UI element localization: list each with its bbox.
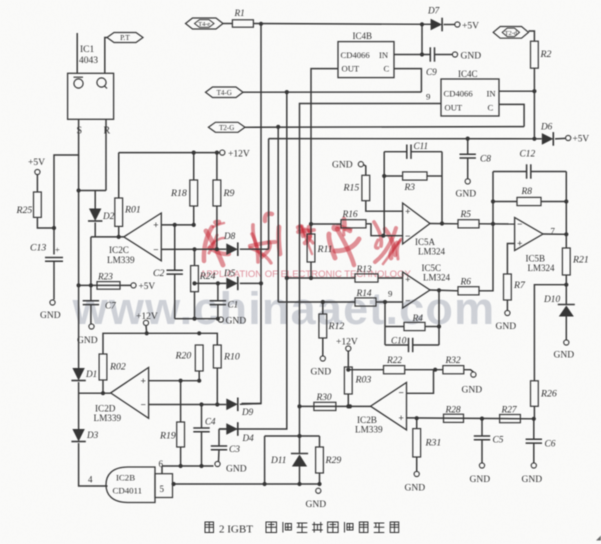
wire minus input up to R22 node xyxy=(407,370,434,394)
junction C8 top xyxy=(466,137,470,141)
resistor R26 xyxy=(531,381,539,407)
wire R14 to IC5C minus input xyxy=(376,301,403,303)
gnd terminal bottom middle xyxy=(316,488,321,493)
resistor R2 xyxy=(531,41,539,68)
junction R9 top xyxy=(215,151,219,155)
capacitor C2 xyxy=(174,225,176,270)
bus x261 from R1 down to D9 xyxy=(242,24,262,404)
wire node left to R26 xyxy=(534,285,566,381)
resistor R25 xyxy=(34,192,42,217)
diode D10 xyxy=(558,304,575,306)
wire C7 to GND xyxy=(90,305,92,324)
ground terminal below C13 xyxy=(50,300,55,305)
wire S-line continues down to D2 row xyxy=(78,155,80,191)
op-amp IC5A LM324 xyxy=(403,203,430,244)
wire C6 to GND xyxy=(533,443,535,463)
resistor R10 xyxy=(213,345,221,368)
resistor R23 xyxy=(97,282,120,290)
gnd row above gate xyxy=(162,465,214,467)
capacitor C1 xyxy=(216,281,220,285)
wire T4-G line xyxy=(243,91,421,93)
resistor R9 xyxy=(216,153,218,180)
wire C4 to gnd row xyxy=(201,432,203,466)
capacitor C6 xyxy=(533,419,535,440)
IC4B CD4066 analog switch box xyxy=(338,42,394,78)
wire C13 to GND xyxy=(53,261,55,299)
wire R01 bottom to output row xyxy=(118,226,120,237)
wire R13 to IC5C plus input xyxy=(378,277,403,279)
wire R5 to IC5B minus input xyxy=(479,223,515,225)
resistor R24 xyxy=(194,249,196,265)
wire link down to gate row xyxy=(264,436,266,484)
resistor R18 xyxy=(193,153,195,180)
power +12V terminal xyxy=(220,150,225,155)
wire R20 to plus row xyxy=(198,371,200,381)
junction above C9 xyxy=(420,22,424,26)
wire D2 top row xyxy=(79,190,106,192)
zener diode D11 xyxy=(291,453,308,455)
wire T2-G line xyxy=(245,126,524,129)
capacitor C9 xyxy=(429,47,431,61)
junction R25/C13 line xyxy=(52,226,56,230)
wire R22 to R32 xyxy=(405,369,443,371)
junction R18 top xyxy=(192,151,196,155)
watermark: red calligraphy characters xyxy=(204,222,229,265)
bus wire down to D8 xyxy=(268,139,270,250)
junction on S line at D2 row xyxy=(77,188,81,192)
resistor R8 feedback row xyxy=(493,201,517,203)
op-amp IC2D LM339 pointing left xyxy=(111,368,149,419)
wire R10 down to minus row xyxy=(216,368,218,405)
wire D5 to bus x261 xyxy=(240,282,261,284)
IC2D minus row xyxy=(149,404,227,406)
gate output row to D11 area xyxy=(173,483,320,485)
diode D2 on vertical xyxy=(94,191,96,209)
resistor R22 xyxy=(384,366,405,374)
node tag T4-e xyxy=(186,18,224,29)
IC2B output row xyxy=(300,405,371,407)
wire +5V to R25 xyxy=(36,175,38,192)
junction R1 line x261 xyxy=(259,22,263,26)
wire output bus down to D11 node xyxy=(299,406,301,453)
wire IC4C C pin loop to T2-G line xyxy=(499,104,524,126)
wire R11 down to R13 row xyxy=(310,262,312,278)
wire R6 to summing node vertical x493 xyxy=(479,172,493,291)
wire R25 to C13 line xyxy=(37,217,54,228)
wire D9 to bus x261 xyxy=(240,403,261,406)
wire IC4C OUT to bus x297 down to IC2B output row xyxy=(300,104,442,407)
wire R9 bottom to minus row xyxy=(216,206,218,249)
diode D9 xyxy=(226,399,238,411)
gate output box pin5 xyxy=(155,474,173,498)
junction R2 bottom on +5V rail xyxy=(532,137,536,141)
wire IC5B output to x566 xyxy=(543,233,566,235)
S-line long vertical with D1 D3 xyxy=(78,191,80,369)
wire R pin down to D2 row xyxy=(105,119,107,190)
resistor R01 xyxy=(115,198,123,226)
wire R16 row from bus xyxy=(311,223,341,225)
wire R18 bottom to plus row xyxy=(193,206,195,225)
junction C2 top xyxy=(173,223,177,227)
capacitor C4 xyxy=(201,405,203,429)
R13 row wire xyxy=(287,277,355,279)
wire IC4B IN to C9 xyxy=(394,54,430,56)
wire R31 to GND xyxy=(416,457,418,472)
resistor R4 feedback row xyxy=(385,326,404,328)
capacitor C12 feedback row top xyxy=(493,171,527,173)
resistor R21 xyxy=(562,248,570,275)
wire IC4B OUT to left bus x311 xyxy=(311,69,338,224)
capacitor C8 from +5V rail xyxy=(467,139,469,155)
resistor R28 xyxy=(444,414,464,422)
resistor R20 xyxy=(195,345,203,371)
gnd row under C2 xyxy=(175,318,218,320)
bus wire T4-G down to D4 xyxy=(219,92,287,429)
wire junction down to IC4B IN line xyxy=(421,24,423,54)
diode D4 row xyxy=(219,428,226,430)
op-amp IC2B LM339 pointing left xyxy=(371,383,407,430)
node tag T2-G xyxy=(208,122,245,132)
capacitor C5 xyxy=(481,419,483,436)
R22 row wire xyxy=(348,369,383,371)
op-amp IC5C LM324 xyxy=(403,272,430,308)
resistor R29 xyxy=(319,436,321,447)
wire +12V to R03 xyxy=(347,351,349,367)
junction on IN line xyxy=(420,52,424,56)
wire IC5B plus input to R7 xyxy=(507,244,514,275)
junction R24 top xyxy=(192,247,196,251)
resistor R1 xyxy=(232,20,253,27)
junction feedback on R14 row xyxy=(383,300,387,304)
IC2D output row xyxy=(79,392,111,394)
wire D11 to bottom row xyxy=(299,467,301,485)
wire D10 to GND xyxy=(565,317,567,341)
wire R32 to GND terminal xyxy=(464,370,474,372)
wire D8 to bus xyxy=(240,248,269,250)
junction T2-G bus xyxy=(276,125,280,129)
resistor R11 below R16 node xyxy=(310,224,312,234)
wire R02 to output row xyxy=(102,380,104,393)
wire tag to R1 xyxy=(223,23,232,25)
wire R15 to IC5A plus input xyxy=(366,201,403,212)
resistor R7 xyxy=(504,274,512,300)
wire IC4C IN to R2 line xyxy=(499,90,534,92)
diode D3 xyxy=(72,429,84,442)
resistor R13 xyxy=(355,274,378,282)
feedback right vertical x566 xyxy=(565,172,567,249)
wire output node down to +5V row xyxy=(90,237,92,286)
IC5C feedback right vertical xyxy=(438,290,440,345)
resistor R16 xyxy=(341,220,366,228)
+5V row with R23 xyxy=(79,284,131,286)
wire S pin down and left to C13 branch xyxy=(54,119,79,254)
wire R2 down to +5V rail xyxy=(533,68,535,139)
wire tag hook to R2 xyxy=(529,31,535,41)
capacitor C10 feedback row xyxy=(385,344,409,346)
IC4C CD4066 analog switch box xyxy=(441,79,499,116)
diode D8 xyxy=(226,243,238,255)
wire +5V D6 rail xyxy=(269,138,542,140)
op-amp IC2C LM339 pointing left xyxy=(124,213,162,261)
wire R16 to IC5A minus input with jog xyxy=(366,224,403,236)
gnd terminal of C2 row xyxy=(218,317,223,322)
+5V terminal of R23 xyxy=(131,283,136,288)
wire IC4B C pin to T4-G line xyxy=(394,69,421,92)
feedback right vertical xyxy=(441,152,443,224)
IC2D plus row xyxy=(149,380,200,382)
resistor R6 xyxy=(458,287,479,295)
resistor R12 from R14 row xyxy=(321,300,325,304)
resistor R31 xyxy=(416,418,418,428)
junction output bus xyxy=(297,404,301,408)
NAND gate IC2B CD4011 xyxy=(106,467,155,503)
wire IC2C output row xyxy=(91,236,124,238)
wire IC1 right pin to tag xyxy=(105,38,107,74)
diode D4 xyxy=(226,423,238,435)
link row to gate output xyxy=(265,435,320,437)
resistor R32 xyxy=(443,366,464,374)
junction T4-G bus xyxy=(285,90,289,94)
diode D5 xyxy=(226,278,238,290)
wire C8 to GND xyxy=(467,158,469,179)
wire C3 to gnd terminal xyxy=(218,450,221,462)
IC5C feedback left vertical xyxy=(384,302,386,345)
node tag T4-G xyxy=(206,87,244,98)
wire R24 bottom to gnd row xyxy=(194,292,196,319)
IC1 pin Q circle xyxy=(97,78,106,87)
wire R12 to GND xyxy=(322,338,324,356)
resistor R27 xyxy=(500,415,521,423)
wire R21 to D10 node xyxy=(565,275,567,305)
IC 4043 latch U=IC1 box xyxy=(68,73,114,119)
wire IC1 left pin up xyxy=(76,33,78,73)
resistor R15 xyxy=(362,175,370,200)
diode D5 row xyxy=(195,282,227,284)
resistor R03 xyxy=(344,367,352,394)
wire C9 to GND terminal xyxy=(435,54,453,56)
wire R03 to output row xyxy=(347,394,349,406)
node tag T2-d xyxy=(493,27,528,39)
wire R7 to GND xyxy=(506,300,508,311)
capacitor C11 feedback row xyxy=(384,151,407,153)
resistor R5 xyxy=(458,220,479,228)
diode D1 xyxy=(72,368,84,381)
resistor R30 xyxy=(314,402,336,410)
capacitor C3 xyxy=(218,429,220,446)
resistor R3 feedback row xyxy=(384,175,402,177)
wire gnd to R15 xyxy=(363,165,365,176)
resistor R19 from plus row xyxy=(180,381,182,422)
wire R1 to D7 and +5V line xyxy=(253,23,431,26)
wire IC5A output row to R5 xyxy=(430,223,458,225)
wire D6 to +5V terminal right xyxy=(555,137,566,140)
resistor R14 xyxy=(355,298,376,306)
IC1 pin Qbar circle xyxy=(74,79,83,88)
junction R2/IN xyxy=(532,89,536,93)
wire R29 to bottom row and GND xyxy=(319,473,321,484)
wire +12V rail over IC2C xyxy=(119,152,220,154)
bottom right corner mark xyxy=(596,536,601,541)
node tag P.T xyxy=(107,33,143,43)
wire C2 bottom to gnd row xyxy=(174,274,176,319)
wire C5 to GND xyxy=(481,440,483,463)
IC2B plus input row xyxy=(407,417,534,420)
feedback left vertical xyxy=(383,152,385,236)
diode D6 xyxy=(542,133,554,145)
+12V row above IC2D xyxy=(103,333,217,354)
wire R19 to gnd row xyxy=(180,447,182,466)
wire IC2C plus input row xyxy=(161,224,193,226)
wire R26 to C6 node xyxy=(533,406,535,419)
wire IC5C output row xyxy=(430,289,458,292)
R14 row wire xyxy=(278,301,355,303)
wire D7 to +5V terminal xyxy=(444,24,455,26)
bus wire T2-G down to R14 row xyxy=(277,127,279,302)
wire IC2C minus input row to D8 xyxy=(161,248,226,250)
diode D7 xyxy=(431,19,443,31)
junction R13 row xyxy=(285,276,289,280)
op-amp IC5B LM324 xyxy=(515,218,543,251)
resistor R02 xyxy=(99,354,107,380)
caption figure title xyxy=(205,522,214,533)
capacitor C7 xyxy=(90,285,92,300)
wire R01 top to rail xyxy=(118,153,120,198)
